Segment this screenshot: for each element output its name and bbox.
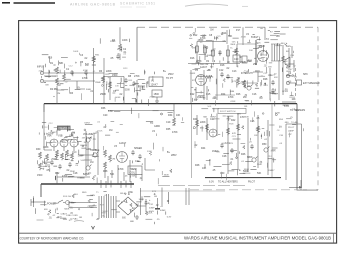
svg-text:56K: 56K xyxy=(90,207,94,209)
svg-text:PILOT: PILOT xyxy=(288,127,295,129)
svg-text:56K: 56K xyxy=(110,173,115,176)
svg-text:R2 68K: R2 68K xyxy=(50,88,58,91)
svg-text:1M: 1M xyxy=(90,161,93,164)
svg-text:R36: R36 xyxy=(101,107,106,110)
svg-text:R50: R50 xyxy=(262,143,267,146)
svg-text:R23: R23 xyxy=(229,143,234,145)
svg-text:.05: .05 xyxy=(110,57,114,60)
svg-text:EXT SPEAKER: EXT SPEAKER xyxy=(303,82,320,85)
svg-text:40MF: 40MF xyxy=(160,210,166,212)
svg-text:47K: 47K xyxy=(232,133,236,135)
svg-text:500K: 500K xyxy=(125,89,131,91)
svg-text:250V: 250V xyxy=(168,73,174,76)
svg-text:C30: C30 xyxy=(220,172,225,175)
svg-text:.05: .05 xyxy=(172,124,176,127)
svg-text:C20: C20 xyxy=(103,114,108,117)
svg-text:1500: 1500 xyxy=(257,164,263,166)
svg-text:R19: R19 xyxy=(48,57,53,59)
svg-text:R9: R9 xyxy=(244,106,248,108)
svg-text:1500: 1500 xyxy=(37,174,43,177)
svg-text:C16: C16 xyxy=(252,93,257,96)
svg-text:.1: .1 xyxy=(141,163,144,166)
svg-text:.05: .05 xyxy=(202,97,206,99)
svg-text:68K: 68K xyxy=(128,80,132,82)
svg-text:R48: R48 xyxy=(195,164,200,167)
svg-text:330K: 330K xyxy=(244,169,250,171)
svg-text:6.3V: 6.3V xyxy=(284,105,289,108)
svg-text:.02: .02 xyxy=(194,144,198,147)
svg-text:25MF: 25MF xyxy=(190,73,196,75)
svg-text:.25: .25 xyxy=(294,76,298,78)
svg-text:470K: 470K xyxy=(82,77,88,80)
svg-text:VOLUME: VOLUME xyxy=(83,133,94,136)
svg-text:C6: C6 xyxy=(75,165,79,167)
svg-text:R7: R7 xyxy=(270,31,274,33)
svg-text:C12: C12 xyxy=(219,69,224,72)
svg-text:270K: 270K xyxy=(134,75,140,78)
svg-text:330K: 330K xyxy=(230,44,236,46)
svg-text:220K: 220K xyxy=(70,171,76,173)
svg-text:1M: 1M xyxy=(79,217,82,219)
svg-text:68K: 68K xyxy=(45,84,49,86)
svg-text:470K: 470K xyxy=(62,175,68,178)
svg-text:500K: 500K xyxy=(269,93,275,95)
svg-text:B+: B+ xyxy=(163,70,167,73)
svg-text:56K: 56K xyxy=(132,176,136,178)
svg-text:R40: R40 xyxy=(193,118,198,121)
svg-text:330K: 330K xyxy=(147,151,153,153)
svg-text:R23: R23 xyxy=(105,74,110,76)
svg-text:SCHEMATIC 1961: SCHEMATIC 1961 xyxy=(120,2,155,6)
svg-text:470K: 470K xyxy=(228,96,234,99)
svg-text:C21: C21 xyxy=(232,136,237,138)
svg-text:R19: R19 xyxy=(248,61,253,63)
svg-text:100K: 100K xyxy=(43,146,49,149)
svg-text:R18: R18 xyxy=(229,123,234,125)
svg-text:12AX7: 12AX7 xyxy=(60,213,67,216)
svg-text:10K: 10K xyxy=(115,85,119,87)
svg-text:R30: R30 xyxy=(36,148,41,151)
svg-text:C6: C6 xyxy=(288,82,292,84)
svg-text:P-P: P-P xyxy=(236,29,240,32)
svg-text:2M: 2M xyxy=(243,96,246,99)
svg-text:12AX7: 12AX7 xyxy=(151,84,159,87)
svg-text:25MF: 25MF xyxy=(144,203,150,205)
svg-text:220K: 220K xyxy=(147,213,153,215)
svg-text:220K: 220K xyxy=(200,121,206,124)
svg-text:B+: B+ xyxy=(103,215,106,217)
svg-text:56K: 56K xyxy=(259,98,263,100)
svg-text:V3: V3 xyxy=(114,145,118,148)
svg-text:8Ω: 8Ω xyxy=(286,51,289,53)
svg-text:25MF: 25MF xyxy=(48,133,54,135)
svg-text:330K: 330K xyxy=(244,116,250,118)
svg-text:C28: C28 xyxy=(222,155,227,158)
svg-text:1M: 1M xyxy=(210,29,213,31)
svg-text:680: 680 xyxy=(285,122,289,124)
svg-text:470K: 470K xyxy=(83,70,89,72)
svg-text:680: 680 xyxy=(122,217,127,219)
svg-text:.01: .01 xyxy=(93,139,97,141)
svg-text:25MF: 25MF xyxy=(95,82,101,84)
svg-text:INPUT: INPUT xyxy=(37,66,45,69)
svg-text:1M: 1M xyxy=(135,204,138,206)
svg-text:C13: C13 xyxy=(232,70,237,73)
svg-text:470K: 470K xyxy=(54,203,60,205)
svg-text:6V6GT: 6V6GT xyxy=(251,36,259,39)
svg-text:470K: 470K xyxy=(275,112,281,114)
svg-text:6.8K: 6.8K xyxy=(108,110,113,113)
svg-text:R54: R54 xyxy=(279,119,284,121)
svg-text:.02: .02 xyxy=(273,74,277,76)
svg-text:47K: 47K xyxy=(296,110,300,112)
svg-text:2M: 2M xyxy=(57,93,60,95)
svg-text:R18: R18 xyxy=(220,64,225,67)
svg-text:C1: C1 xyxy=(66,68,70,71)
svg-text:1M: 1M xyxy=(57,85,60,87)
svg-text:C4: C4 xyxy=(288,73,292,75)
svg-text:25MF: 25MF xyxy=(240,61,247,64)
svg-text:C9: C9 xyxy=(212,60,216,63)
svg-text:470K: 470K xyxy=(241,37,247,39)
svg-text:500K: 500K xyxy=(196,63,202,65)
svg-text:56K: 56K xyxy=(228,35,233,38)
svg-text:FOOT SWITCH: FOOT SWITCH xyxy=(220,111,236,113)
svg-text:C14: C14 xyxy=(244,71,249,73)
svg-text:470K: 470K xyxy=(232,81,238,83)
svg-text:220K: 220K xyxy=(106,70,112,73)
svg-text:TO: TO xyxy=(150,122,153,125)
svg-text:68K: 68K xyxy=(268,66,272,68)
svg-text:R31: R31 xyxy=(254,135,259,137)
svg-text:.25: .25 xyxy=(156,219,160,221)
svg-text:C34: C34 xyxy=(290,55,295,57)
svg-text:C6: C6 xyxy=(277,130,281,132)
svg-text:LAMP: LAMP xyxy=(288,130,294,133)
svg-text:330K: 330K xyxy=(164,174,170,176)
svg-text:C26: C26 xyxy=(250,120,255,123)
svg-text:R22: R22 xyxy=(190,93,195,96)
svg-text:.02: .02 xyxy=(155,205,159,207)
svg-text:25MF: 25MF xyxy=(100,93,107,96)
svg-text:285V: 285V xyxy=(171,154,177,157)
svg-text:C12: C12 xyxy=(49,123,54,125)
svg-text:6SN7: 6SN7 xyxy=(210,116,216,118)
svg-text:R9: R9 xyxy=(142,87,146,89)
svg-text:470K: 470K xyxy=(118,168,124,171)
svg-text:470K: 470K xyxy=(68,177,74,179)
svg-text:R38: R38 xyxy=(103,170,108,173)
svg-text:500K: 500K xyxy=(103,211,109,213)
svg-text:25MF: 25MF xyxy=(198,40,204,42)
svg-text:C8: C8 xyxy=(209,34,213,37)
svg-text:680: 680 xyxy=(44,209,48,211)
svg-text:R7: R7 xyxy=(195,53,199,55)
svg-text:56K: 56K xyxy=(203,117,207,119)
svg-text:GRID: GRID xyxy=(154,125,160,128)
svg-text:680: 680 xyxy=(216,152,220,154)
svg-text:56K: 56K xyxy=(57,130,62,132)
svg-text:470K: 470K xyxy=(128,192,134,194)
svg-text:680: 680 xyxy=(231,91,235,93)
svg-text:.02: .02 xyxy=(65,81,69,83)
svg-text:RED: RED xyxy=(82,192,87,194)
svg-text:10K: 10K xyxy=(202,167,207,170)
svg-text:R7: R7 xyxy=(279,127,283,129)
svg-text:C12: C12 xyxy=(69,66,74,68)
svg-text:1M: 1M xyxy=(237,78,240,80)
svg-text:.25: .25 xyxy=(124,176,128,178)
svg-text:SPEED: SPEED xyxy=(134,147,142,150)
svg-text:500K: 500K xyxy=(115,97,121,99)
svg-text:6SN7: 6SN7 xyxy=(84,122,90,124)
svg-text:100K: 100K xyxy=(73,51,79,53)
svg-text:R44: R44 xyxy=(201,147,206,150)
svg-text:470K: 470K xyxy=(230,101,236,103)
svg-text:2M: 2M xyxy=(205,56,208,58)
svg-text:.02: .02 xyxy=(119,93,123,96)
svg-text:.02: .02 xyxy=(264,139,268,141)
svg-text:C19: C19 xyxy=(166,121,171,124)
svg-text:R7: R7 xyxy=(192,80,196,82)
svg-text:V3B: V3B xyxy=(58,135,63,138)
svg-text:R6: R6 xyxy=(99,70,103,73)
svg-text:.01: .01 xyxy=(92,71,96,73)
svg-text:COIL: COIL xyxy=(130,172,136,175)
svg-text:56K: 56K xyxy=(81,160,85,162)
svg-text:.02: .02 xyxy=(264,66,268,68)
svg-text:R9: R9 xyxy=(206,61,210,63)
svg-text:T2: T2 xyxy=(266,38,269,41)
svg-text:R46: R46 xyxy=(241,153,246,156)
svg-text:250: 250 xyxy=(253,63,258,66)
svg-text:47: 47 xyxy=(290,69,293,71)
svg-text:AIRLINE GAC-9801B: AIRLINE GAC-9801B xyxy=(70,2,116,6)
svg-text:C21: C21 xyxy=(217,36,222,38)
svg-text:C12: C12 xyxy=(44,127,49,129)
svg-text:FUS 1A: FUS 1A xyxy=(63,195,71,198)
svg-text:BASS: BASS xyxy=(83,173,90,176)
svg-text:R7: R7 xyxy=(118,53,122,55)
svg-text:47K: 47K xyxy=(237,114,241,116)
svg-text:R5: R5 xyxy=(80,61,84,64)
svg-text:PILOT: PILOT xyxy=(248,181,255,184)
svg-text:.02: .02 xyxy=(103,126,107,129)
svg-text:C24: C24 xyxy=(210,118,215,121)
svg-text:2M: 2M xyxy=(82,138,85,140)
svg-text:.01: .01 xyxy=(230,158,234,161)
svg-text:TO ALL: TO ALL xyxy=(291,121,299,124)
svg-text:220K: 220K xyxy=(256,43,262,45)
svg-text:R23: R23 xyxy=(264,85,269,87)
svg-text:R34: R34 xyxy=(168,114,173,117)
svg-text:6.3V: 6.3V xyxy=(209,181,214,184)
svg-text:68K: 68K xyxy=(130,221,134,223)
svg-text:R18: R18 xyxy=(85,63,90,65)
svg-text:6.3V: 6.3V xyxy=(167,217,172,219)
svg-text:.02: .02 xyxy=(293,65,297,67)
svg-text:B+: B+ xyxy=(230,48,233,50)
svg-text:.02: .02 xyxy=(52,215,56,217)
svg-text:680K: 680K xyxy=(247,156,253,159)
svg-text:47K: 47K xyxy=(39,71,43,73)
svg-text:+: + xyxy=(149,199,151,202)
svg-text:TO PT: TO PT xyxy=(166,77,174,80)
svg-text:1M: 1M xyxy=(109,129,112,132)
svg-text:GRN: GRN xyxy=(286,46,291,48)
svg-text:WARDS AIRLINE MUSICAL INSTRUME: WARDS AIRLINE MUSICAL INSTRUMENT AMPLIFI… xyxy=(184,236,331,241)
svg-text:R28: R28 xyxy=(263,78,268,81)
svg-text:10K: 10K xyxy=(249,50,253,52)
svg-text:25MF: 25MF xyxy=(51,159,57,161)
svg-text:V4: V4 xyxy=(246,33,250,36)
svg-text:.05: .05 xyxy=(279,143,283,145)
svg-text:.01: .01 xyxy=(97,122,101,124)
svg-text:R31: R31 xyxy=(95,54,100,56)
svg-text:12AX7: 12AX7 xyxy=(268,169,275,172)
svg-text:R3: R3 xyxy=(70,92,74,95)
svg-text:T1: T1 xyxy=(96,192,99,194)
svg-text:R8: R8 xyxy=(128,75,132,78)
svg-text:C5: C5 xyxy=(113,90,117,93)
svg-text:R23: R23 xyxy=(123,68,128,70)
svg-text:.01: .01 xyxy=(241,161,245,163)
svg-text:.25: .25 xyxy=(77,87,81,89)
svg-text:100K: 100K xyxy=(122,39,128,42)
svg-text:TO ALL HEATERS: TO ALL HEATERS xyxy=(218,181,238,184)
svg-text:330K: 330K xyxy=(271,151,277,153)
svg-text:R42: R42 xyxy=(231,119,236,122)
svg-text:50K: 50K xyxy=(257,172,262,175)
svg-text:.02: .02 xyxy=(199,42,203,44)
svg-text:R1: R1 xyxy=(50,62,54,65)
svg-text:56K: 56K xyxy=(232,42,236,44)
svg-text:680: 680 xyxy=(65,140,69,142)
svg-text:C15: C15 xyxy=(206,93,211,96)
svg-text:56K: 56K xyxy=(207,106,211,108)
svg-text:R7: R7 xyxy=(211,51,215,53)
svg-text:+: + xyxy=(160,206,162,208)
svg-text:25MF: 25MF xyxy=(110,41,116,43)
svg-text:12AX7: 12AX7 xyxy=(200,66,208,69)
svg-text:R16: R16 xyxy=(190,57,195,60)
svg-text:.25: .25 xyxy=(212,169,216,172)
svg-text:R35: R35 xyxy=(166,128,171,131)
svg-text:R26: R26 xyxy=(236,93,241,96)
svg-text:.02: .02 xyxy=(84,57,88,60)
svg-text:10K: 10K xyxy=(52,76,56,78)
svg-text:1M: 1M xyxy=(194,100,197,102)
svg-text:10K: 10K xyxy=(292,99,297,101)
svg-text:500K: 500K xyxy=(139,199,145,201)
svg-text:R19: R19 xyxy=(255,71,260,73)
svg-text:68K: 68K xyxy=(274,77,278,79)
svg-text:C36: C36 xyxy=(279,135,284,137)
svg-text:SR: SR xyxy=(154,196,157,198)
svg-text:R32: R32 xyxy=(55,172,60,175)
svg-text:500K: 500K xyxy=(78,156,84,158)
svg-text:40MF: 40MF xyxy=(149,207,155,209)
svg-text:.05: .05 xyxy=(46,169,50,172)
svg-text:.01: .01 xyxy=(104,195,108,197)
svg-text:.05: .05 xyxy=(256,117,260,120)
svg-text:470K: 470K xyxy=(172,131,178,134)
svg-text:.25: .25 xyxy=(249,142,253,144)
svg-text:10K: 10K xyxy=(176,114,181,117)
svg-text:2M: 2M xyxy=(112,158,115,160)
svg-text:LINE CORD: LINE CORD xyxy=(66,215,78,217)
svg-text:.25: .25 xyxy=(93,176,97,178)
svg-text:470K: 470K xyxy=(256,128,262,130)
svg-text:COURTESY OF MONTGOMERY WARD AN: COURTESY OF MONTGOMERY WARD AND CO. xyxy=(20,236,85,240)
svg-text:68K: 68K xyxy=(59,62,64,65)
svg-text:25MF: 25MF xyxy=(149,96,155,98)
svg-text:1500: 1500 xyxy=(112,74,118,77)
svg-text:V4: V4 xyxy=(152,130,156,133)
svg-text:#47: #47 xyxy=(288,134,292,136)
svg-text:68K: 68K xyxy=(192,47,196,49)
svg-text:R19: R19 xyxy=(72,152,77,154)
svg-text:.01: .01 xyxy=(49,218,53,220)
svg-text:R24: R24 xyxy=(221,93,226,96)
svg-text:C10: C10 xyxy=(234,58,239,61)
svg-text:.02: .02 xyxy=(226,67,230,70)
svg-text:SPK: SPK xyxy=(303,73,308,76)
svg-text:1M: 1M xyxy=(72,133,75,135)
svg-text:12AX7: 12AX7 xyxy=(119,142,127,145)
